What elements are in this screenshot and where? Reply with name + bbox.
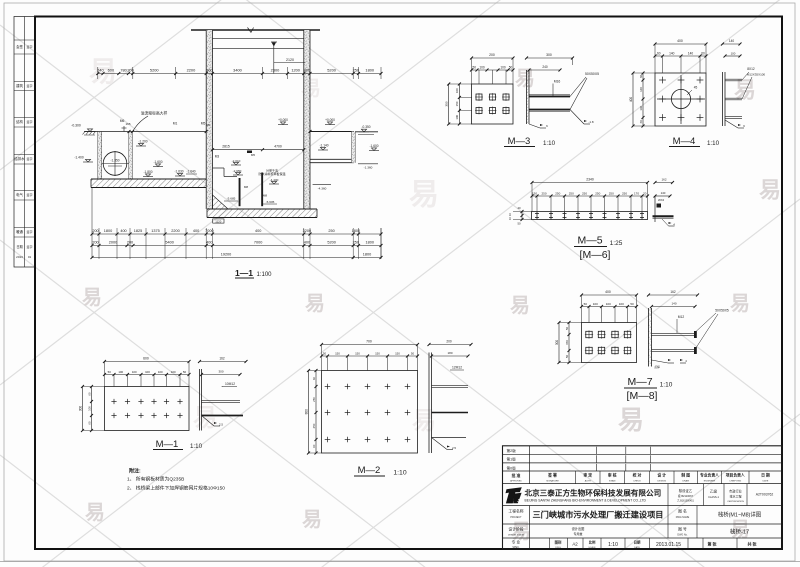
svg-text:1200: 1200 — [291, 68, 300, 73]
svg-text:易: 易 — [412, 407, 436, 434]
svg-text:150: 150 — [455, 101, 459, 106]
svg-text:1:10: 1:10 — [660, 382, 673, 389]
svg-text:250: 250 — [582, 192, 587, 196]
svg-text:250: 250 — [312, 397, 316, 402]
svg-text:10M12: 10M12 — [225, 382, 235, 386]
svg-text:审 核: 审 核 — [608, 473, 617, 478]
svg-text:日 期: 日 期 — [761, 473, 770, 478]
svg-text:7000: 7000 — [254, 241, 262, 245]
svg-text:M—7: M—7 — [627, 376, 652, 388]
svg-text:12M12: 12M12 — [452, 366, 462, 370]
svg-text:100: 100 — [500, 66, 506, 70]
svg-text:1800: 1800 — [365, 68, 374, 73]
svg-text:易: 易 — [85, 501, 105, 524]
svg-text:市政行业: 市政行业 — [729, 489, 742, 494]
svg-text:60: 60 — [312, 377, 316, 381]
svg-text:50: 50 — [108, 370, 112, 374]
svg-text:图 号: 图 号 — [678, 527, 687, 532]
svg-text:1800: 1800 — [104, 229, 112, 233]
svg-text:5200: 5200 — [327, 68, 336, 73]
svg-text:1800: 1800 — [352, 229, 360, 233]
svg-text:三门峡城市污水处理厂搬迁建设项目: 三门峡城市污水处理厂搬迁建设项目 — [532, 510, 663, 520]
svg-text:日期: 日期 — [634, 540, 641, 545]
svg-text:+0.000: +0.000 — [325, 118, 335, 122]
svg-text:-4.400: -4.400 — [270, 178, 279, 182]
svg-text:20: 20 — [643, 192, 647, 196]
svg-text:1375: 1375 — [151, 229, 159, 233]
svg-text:M12: M12 — [678, 315, 685, 319]
svg-text:会签: 会签 — [16, 44, 23, 49]
svg-text:100: 100 — [171, 370, 176, 374]
svg-text:BEIJING SANTAI ZHENGFANG BIO-E: BEIJING SANTAI ZHENGFANG BIO-ENVIRONMENT… — [525, 499, 647, 503]
svg-text:签字: 签字 — [26, 83, 32, 88]
svg-text:1、 所有钢板材质为Q235B: 1、 所有钢板材质为Q235B — [127, 476, 184, 483]
svg-text:A2T003762: A2T003762 — [756, 493, 774, 497]
svg-text:150: 150 — [355, 352, 360, 356]
svg-text:-1.8: -1.8 — [588, 120, 594, 124]
svg-text:-0.350: -0.350 — [361, 125, 370, 129]
svg-text:-1.600: -1.600 — [153, 160, 162, 164]
svg-text:易: 易 — [409, 179, 439, 212]
svg-text:8X12: 8X12 — [747, 67, 755, 71]
svg-text:CHIEF ENG: CHIEF ENG — [729, 481, 741, 483]
svg-text:300: 300 — [218, 370, 223, 374]
svg-text:CLASS-1: CLASS-1 — [708, 495, 719, 499]
svg-text:140: 140 — [671, 302, 676, 306]
svg-text:DRAW: DRAW — [682, 480, 690, 483]
svg-text:M8: M8 — [244, 185, 248, 189]
svg-text:易: 易 — [305, 292, 325, 315]
svg-text:1120: 1120 — [215, 219, 221, 223]
svg-text:第 张: 第 张 — [707, 541, 717, 547]
svg-text:1—1: 1—1 — [235, 268, 253, 278]
svg-text:项目负责人: 项目负责人 — [726, 473, 745, 478]
svg-text:乙级: 乙级 — [710, 489, 718, 494]
svg-text:专用章: 专用章 — [573, 531, 582, 536]
svg-text:-1.630: -1.630 — [174, 170, 183, 174]
svg-text:150: 150 — [565, 340, 569, 345]
svg-text:共 张: 共 张 — [747, 541, 757, 547]
svg-text:800: 800 — [304, 409, 308, 415]
svg-text:CERTIFICATION: CERTIFICATION — [727, 500, 744, 503]
svg-text:签字: 签字 — [26, 229, 32, 234]
svg-text:专 业: 专 业 — [512, 540, 521, 545]
svg-text:1800: 1800 — [366, 241, 374, 245]
svg-text:M—1: M—1 — [156, 439, 179, 450]
svg-text:M8: M8 — [263, 194, 267, 198]
svg-text:易: 易 — [730, 292, 750, 315]
svg-text:250: 250 — [609, 192, 614, 196]
svg-text:签字: 签字 — [26, 244, 32, 249]
svg-text:250: 250 — [595, 192, 600, 196]
svg-text:易: 易 — [193, 404, 217, 431]
svg-text:200: 200 — [489, 53, 495, 57]
svg-text:100: 100 — [731, 52, 736, 56]
svg-text:5200: 5200 — [327, 241, 335, 245]
svg-text:250: 250 — [541, 192, 546, 196]
svg-text:签 署: 签 署 — [547, 473, 557, 478]
svg-text:2300: 2300 — [271, 68, 280, 73]
svg-text:150: 150 — [395, 352, 400, 356]
svg-text:400: 400 — [255, 229, 261, 233]
svg-text:2013.01.15: 2013.01.15 — [656, 542, 681, 548]
svg-text:1:10: 1:10 — [393, 470, 406, 477]
svg-text:165: 165 — [125, 122, 130, 126]
svg-text:140: 140 — [639, 87, 643, 92]
svg-text:5200: 5200 — [150, 68, 159, 73]
svg-text:易: 易 — [734, 78, 756, 103]
svg-text:50: 50 — [411, 352, 415, 356]
svg-text:150: 150 — [532, 192, 537, 196]
svg-text:易: 易 — [82, 286, 102, 309]
svg-text:比例: 比例 — [589, 540, 596, 545]
svg-text:乙 B161000451: 乙 B161000451 — [677, 499, 694, 503]
svg-text:2120: 2120 — [286, 58, 294, 62]
svg-text:北京三泰正方生物环保科技发展有限公司: 北京三泰正方生物环保科技发展有限公司 — [525, 488, 662, 498]
svg-text:50: 50 — [183, 370, 187, 374]
svg-text:易: 易 — [759, 178, 781, 203]
svg-text:250: 250 — [555, 192, 560, 196]
svg-text:批 准: 批 准 — [512, 473, 521, 478]
svg-text:50: 50 — [509, 66, 513, 70]
svg-text:M—3: M—3 — [508, 136, 531, 147]
svg-text:60: 60 — [657, 52, 661, 56]
svg-text:50: 50 — [565, 327, 569, 331]
svg-text:签字: 签字 — [26, 156, 32, 161]
svg-text:CHECK: CHECK — [633, 481, 641, 483]
svg-text:2、 栈桥梁上部件下加焊钢筋网片规格10Φ150: 2、 栈桥梁上部件下加焊钢筋网片规格10Φ150 — [127, 485, 225, 492]
svg-text:-5.685: -5.685 — [227, 197, 236, 201]
svg-text:设计阶段: 设计阶段 — [508, 527, 523, 532]
svg-text:APPROVED: APPROVED — [510, 480, 522, 483]
svg-text:专业负责人: 专业负责人 — [700, 473, 719, 478]
svg-text:250: 250 — [353, 68, 360, 73]
svg-text:校 对: 校 对 — [633, 473, 642, 478]
svg-text:制 图: 制 图 — [681, 473, 690, 478]
svg-text:600: 600 — [143, 357, 149, 361]
svg-text:100: 100 — [455, 88, 459, 93]
svg-text:50: 50 — [565, 355, 569, 359]
svg-text:核设证乙: 核设证乙 — [679, 488, 693, 493]
svg-text:50: 50 — [472, 66, 476, 70]
svg-text:审 定: 审 定 — [583, 473, 592, 478]
svg-text:暖通: 暖通 — [16, 229, 23, 234]
svg-text:50X50X5: 50X50X5 — [585, 72, 599, 76]
svg-text:点焊: 点焊 — [654, 365, 660, 369]
svg-text:JF: JF — [517, 498, 522, 503]
svg-text:第2版: 第2版 — [507, 448, 517, 453]
svg-text:200: 200 — [127, 68, 134, 73]
svg-text:SPEC.: SPEC. — [512, 546, 520, 549]
svg-text:45: 45 — [694, 86, 698, 90]
svg-text:300: 300 — [304, 68, 311, 73]
svg-text:第1版: 第1版 — [507, 457, 517, 462]
svg-text:栈桥(M1~M8)详图: 栈桥(M1~M8)详图 — [718, 511, 761, 519]
svg-text:4700: 4700 — [274, 145, 282, 149]
svg-text:50: 50 — [630, 302, 634, 306]
svg-text:2340: 2340 — [586, 178, 594, 182]
svg-text:日期: 日期 — [16, 244, 22, 249]
svg-text:1:10: 1:10 — [190, 443, 203, 450]
svg-text:400: 400 — [193, 229, 199, 233]
svg-text:1:100: 1:100 — [256, 272, 272, 278]
svg-text:300: 300 — [555, 340, 559, 346]
svg-text:250: 250 — [312, 423, 316, 428]
svg-text:140: 140 — [729, 39, 735, 43]
svg-text:DWG NAME: DWG NAME — [676, 516, 690, 519]
svg-text:-1.140: -1.140 — [319, 144, 328, 148]
svg-text:300: 300 — [206, 68, 213, 73]
svg-text:电气: 电气 — [16, 192, 23, 197]
svg-text:第0版: 第0版 — [507, 465, 517, 470]
svg-text:100: 100 — [145, 370, 150, 374]
svg-text:M6: M6 — [120, 119, 125, 123]
svg-text:250: 250 — [328, 229, 334, 233]
svg-text:2815: 2815 — [222, 145, 230, 149]
svg-text:EXAM: EXAM — [609, 480, 615, 483]
svg-text:-1.360: -1.360 — [364, 166, 373, 170]
svg-text:19200: 19200 — [221, 253, 232, 257]
svg-text:250: 250 — [353, 241, 359, 245]
svg-text:-2.650: -2.650 — [233, 169, 242, 173]
svg-text:1:10: 1:10 — [608, 542, 618, 548]
svg-text:60: 60 — [639, 120, 643, 124]
svg-text:162: 162 — [670, 290, 676, 294]
svg-text:易: 易 — [510, 294, 530, 317]
svg-text:50: 50 — [323, 352, 327, 356]
svg-text:2000: 2000 — [109, 241, 117, 245]
svg-text:易: 易 — [302, 508, 322, 531]
svg-text:1:10: 1:10 — [543, 140, 556, 147]
svg-text:M6: M6 — [206, 123, 210, 127]
svg-text:60: 60 — [87, 392, 91, 396]
svg-text:50X50X5: 50X50X5 — [715, 309, 729, 313]
svg-text:1800: 1800 — [363, 253, 371, 257]
svg-text:设计出图: 设计出图 — [572, 526, 585, 531]
svg-text:300: 300 — [546, 53, 552, 57]
svg-text:易: 易 — [618, 405, 644, 435]
svg-text:300: 300 — [78, 406, 82, 412]
svg-text:-1.350: -1.350 — [110, 159, 119, 163]
svg-text:240: 240 — [97, 68, 104, 73]
svg-text:100: 100 — [118, 370, 123, 374]
svg-text:M—2: M—2 — [358, 465, 381, 476]
svg-text:签字: 签字 — [26, 192, 32, 197]
svg-text:01: 01 — [28, 255, 32, 259]
svg-text:50: 50 — [517, 222, 521, 226]
svg-text:240: 240 — [542, 65, 548, 69]
svg-text:60: 60 — [639, 75, 643, 79]
svg-text:M16: M16 — [554, 80, 561, 84]
svg-text:140: 140 — [661, 191, 666, 195]
svg-text:2.5: 2.5 — [219, 423, 223, 427]
svg-text:工程名称: 工程名称 — [508, 509, 523, 514]
svg-text:2013: 2013 — [16, 255, 23, 259]
svg-text:162: 162 — [219, 357, 225, 361]
svg-text:100: 100 — [593, 302, 598, 306]
svg-text:级 B2110067: 级 B2110067 — [678, 494, 694, 498]
svg-text:150: 150 — [335, 352, 340, 356]
svg-text:2200: 2200 — [187, 68, 196, 73]
svg-text:-1.400: -1.400 — [74, 156, 84, 160]
svg-text:M3: M3 — [215, 155, 220, 159]
svg-text:170: 170 — [634, 192, 639, 196]
svg-text:溢流堰标高大样: 溢流堰标高大样 — [141, 111, 168, 116]
svg-text:400: 400 — [304, 241, 310, 245]
svg-text:-1.800: -1.800 — [143, 170, 152, 174]
svg-text:2.5: 2.5 — [452, 446, 456, 450]
svg-text:给排水: 给排水 — [14, 156, 25, 161]
svg-text:100: 100 — [455, 114, 459, 119]
svg-text:M12X35X100: M12X35X100 — [747, 73, 766, 77]
svg-text:20X4: 20X4 — [658, 198, 665, 202]
svg-text:140: 140 — [669, 52, 675, 56]
svg-text:建筑: 建筑 — [16, 83, 23, 88]
svg-text:签字: 签字 — [26, 119, 32, 124]
svg-text:180: 180 — [447, 351, 452, 355]
svg-text:-1.600: -1.600 — [369, 144, 378, 148]
svg-text:250: 250 — [569, 192, 574, 196]
svg-text:DWG No.: DWG No. — [677, 534, 688, 537]
svg-text:400: 400 — [206, 241, 212, 245]
svg-text:结构: 结构 — [16, 119, 23, 124]
svg-text:400: 400 — [605, 290, 611, 294]
svg-text:40: 40 — [517, 206, 521, 210]
svg-text:+0.000: +0.000 — [278, 118, 288, 122]
svg-text:100: 100 — [87, 406, 91, 411]
svg-text:DESIGN: DESIGN — [658, 481, 667, 483]
svg-text:400: 400 — [629, 97, 633, 103]
svg-text:162: 162 — [661, 178, 666, 182]
svg-text:易: 易 — [515, 67, 535, 90]
svg-text:图别: 图别 — [555, 540, 562, 545]
svg-text:100: 100 — [606, 302, 611, 306]
svg-text:DESIGN STAGE: DESIGN STAGE — [508, 534, 525, 537]
svg-text:[M—6]: [M—6] — [580, 249, 611, 261]
svg-text:栈桥-17: 栈桥-17 — [730, 528, 749, 536]
svg-text:-4.360: -4.360 — [318, 187, 327, 191]
svg-text:600: 600 — [108, 68, 115, 73]
svg-text:ENGINEER: ENGINEER — [704, 481, 716, 483]
svg-text:DATE: DATE — [634, 546, 640, 549]
svg-text:-1.200: -1.200 — [138, 140, 147, 144]
svg-text:M5: M5 — [201, 122, 206, 126]
svg-text:400: 400 — [120, 229, 126, 233]
svg-text:M5: M5 — [251, 153, 255, 157]
svg-text:PROJECT: PROJECT — [510, 516, 522, 519]
svg-text:-0.300: -0.300 — [71, 124, 81, 128]
svg-text:60: 60 — [87, 421, 91, 425]
svg-text:200: 200 — [92, 241, 98, 245]
svg-text:SCALE: SCALE — [588, 546, 596, 549]
svg-text:AUTH: AUTH — [585, 480, 591, 483]
svg-text:SIGNATURE: SIGNATURE — [546, 480, 559, 483]
svg-text:400: 400 — [677, 39, 683, 43]
svg-text:-2.010: -2.010 — [232, 159, 241, 163]
svg-text:2200: 2200 — [171, 229, 179, 233]
svg-text:1:10: 1:10 — [707, 140, 720, 147]
svg-text:150: 150 — [375, 352, 380, 356]
svg-text:100: 100 — [619, 302, 624, 306]
svg-text:100: 100 — [158, 370, 163, 374]
svg-text:[M—8]: [M—8] — [627, 390, 658, 402]
svg-text:M—4: M—4 — [673, 136, 696, 147]
svg-text:100: 100 — [132, 370, 137, 374]
svg-text:140: 140 — [688, 52, 694, 56]
svg-text:5400: 5400 — [165, 241, 173, 245]
svg-text:350: 350 — [445, 101, 449, 106]
svg-text:200: 200 — [92, 229, 98, 233]
svg-text:签字: 签字 — [26, 44, 32, 49]
svg-text:排水工程: 排水工程 — [729, 494, 741, 499]
svg-text:A2: A2 — [572, 542, 578, 547]
svg-text:60: 60 — [701, 52, 705, 56]
svg-text:附注:: 附注: — [129, 468, 141, 475]
svg-text:60: 60 — [312, 444, 316, 448]
svg-text:图 名: 图 名 — [678, 509, 687, 514]
svg-text:-1.640: -1.640 — [186, 170, 195, 174]
svg-text:3400: 3400 — [233, 68, 242, 73]
svg-text:100: 100 — [479, 66, 485, 70]
svg-text:1825: 1825 — [134, 229, 142, 233]
svg-text:700: 700 — [366, 340, 372, 344]
svg-text:1:25: 1:25 — [610, 240, 623, 247]
svg-text:M1: M1 — [173, 122, 178, 126]
svg-text:250: 250 — [622, 192, 627, 196]
svg-text:50: 50 — [584, 302, 588, 306]
svg-text:DATE: DATE — [763, 480, 769, 483]
svg-text:DWG: DWG — [555, 547, 561, 549]
svg-text:140: 140 — [639, 105, 643, 110]
svg-text:M—5: M—5 — [577, 235, 602, 247]
svg-text:设 计: 设 计 — [657, 473, 666, 478]
svg-text:-5.605: -5.605 — [266, 200, 275, 204]
svg-text:200: 200 — [446, 340, 452, 344]
